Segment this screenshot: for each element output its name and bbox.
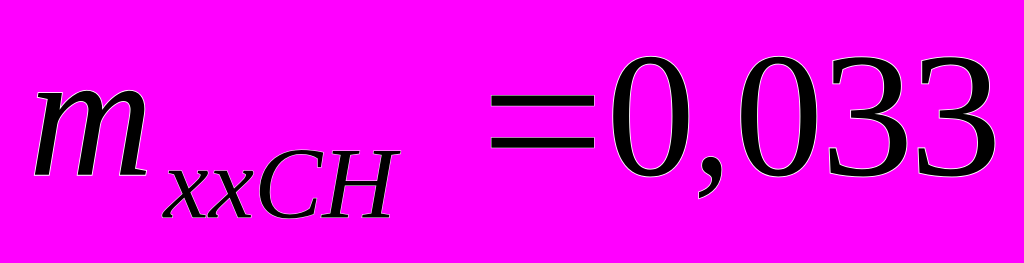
svg-text:0: 0 bbox=[734, 18, 823, 214]
svg-text:m: m bbox=[29, 16, 154, 213]
svg-text:3: 3 bbox=[821, 18, 914, 214]
equals sign top bar bbox=[491, 96, 594, 106]
svg-text:xxCH: xxCH bbox=[161, 128, 401, 241]
equals sign bottom bar bbox=[491, 138, 594, 148]
svg-text:3: 3 bbox=[910, 18, 1002, 214]
svg-text:0: 0 bbox=[606, 18, 695, 214]
svg-text:,: , bbox=[693, 30, 731, 209]
